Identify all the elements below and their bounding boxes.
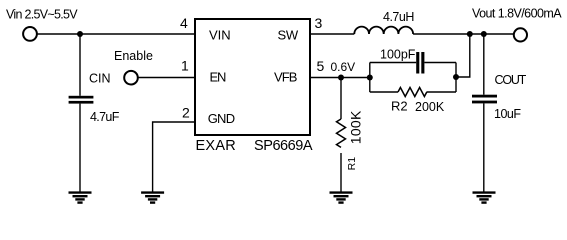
svg-text:SW: SW (278, 28, 299, 43)
svg-text:EXAR: EXAR (196, 138, 237, 154)
svg-text:0.6V: 0.6V (331, 60, 356, 74)
wire RC top branch left (370, 62, 416, 64)
svg-text:EN: EN (210, 70, 226, 85)
wire pin2 to ground (153, 122, 195, 192)
svg-text:2: 2 (182, 105, 190, 121)
svg-text:4.7uF: 4.7uF (90, 110, 120, 124)
svg-text:CIN: CIN (89, 72, 111, 86)
svg-text:200K: 200K (415, 100, 445, 114)
wire RC left vertical (369, 63, 371, 93)
svg-text:100K: 100K (348, 110, 364, 144)
node RC right (453, 74, 459, 80)
svg-text:GND: GND (208, 111, 235, 126)
wire junction down to CIN (79, 34, 81, 96)
svg-text:COUT: COUT (495, 73, 527, 87)
ground under R1 (330, 193, 353, 203)
node feedback tap (467, 31, 473, 37)
wire Vin to pin4 (37, 33, 195, 35)
wire COUT to ground (483, 103, 485, 192)
wire COUT tap down (483, 34, 485, 95)
wire RC right elbow to Vout rail (456, 34, 470, 77)
svg-text:4.7uH: 4.7uH (383, 10, 414, 24)
capacitor C1 100pF (416, 52, 424, 74)
svg-text:10uF: 10uF (494, 107, 521, 121)
ground under COUT (473, 193, 496, 203)
svg-text:4: 4 (180, 15, 188, 31)
terminal Vin (23, 27, 37, 41)
svg-text:Vout 1.8V/600mA: Vout 1.8V/600mA (472, 7, 562, 21)
wire VFB pin5 (310, 77, 370, 79)
svg-text:100pF: 100pF (380, 48, 416, 62)
svg-text:1: 1 (181, 58, 189, 74)
inductor L1 4.7uH (354, 27, 413, 34)
wire SW to inductor (310, 33, 354, 35)
wire RC right vertical (455, 63, 457, 93)
wire Enable to pin1 (138, 77, 195, 79)
terminal Vout (514, 28, 527, 41)
ground under pin2 (141, 193, 164, 203)
svg-text:VIN: VIN (209, 28, 231, 43)
wire RC bottom branch right (427, 91, 456, 93)
wire R1 top (340, 78, 342, 120)
terminal Enable (124, 71, 138, 85)
wire RC top branch right (424, 62, 456, 64)
ground under CIN (69, 193, 92, 203)
node RC left (367, 75, 373, 81)
resistor R2 (398, 88, 427, 97)
op-amp U1 SP6669A box (195, 19, 310, 135)
node Vin junction (77, 31, 83, 37)
svg-text:3: 3 (315, 15, 323, 31)
svg-text:Enable: Enable (114, 49, 153, 63)
capacitor COUT (472, 95, 497, 104)
resistor R1 (337, 119, 346, 147)
wire R1 to ground (340, 153, 342, 192)
svg-text:R2: R2 (391, 99, 408, 114)
wire RC bottom branch left (370, 91, 398, 93)
node R1 tap (338, 75, 344, 81)
svg-text:R1: R1 (346, 157, 358, 171)
wire inductor to Vout (413, 33, 513, 35)
svg-text:5: 5 (317, 58, 325, 74)
svg-text:Vin 2.5V~5.5V: Vin 2.5V~5.5V (6, 8, 78, 22)
node COUT tap (481, 31, 487, 37)
svg-text:SP6669A: SP6669A (254, 138, 313, 154)
wire CIN to ground (79, 104, 81, 192)
capacitor CIN (69, 96, 94, 104)
svg-text:VFB: VFB (274, 70, 297, 85)
